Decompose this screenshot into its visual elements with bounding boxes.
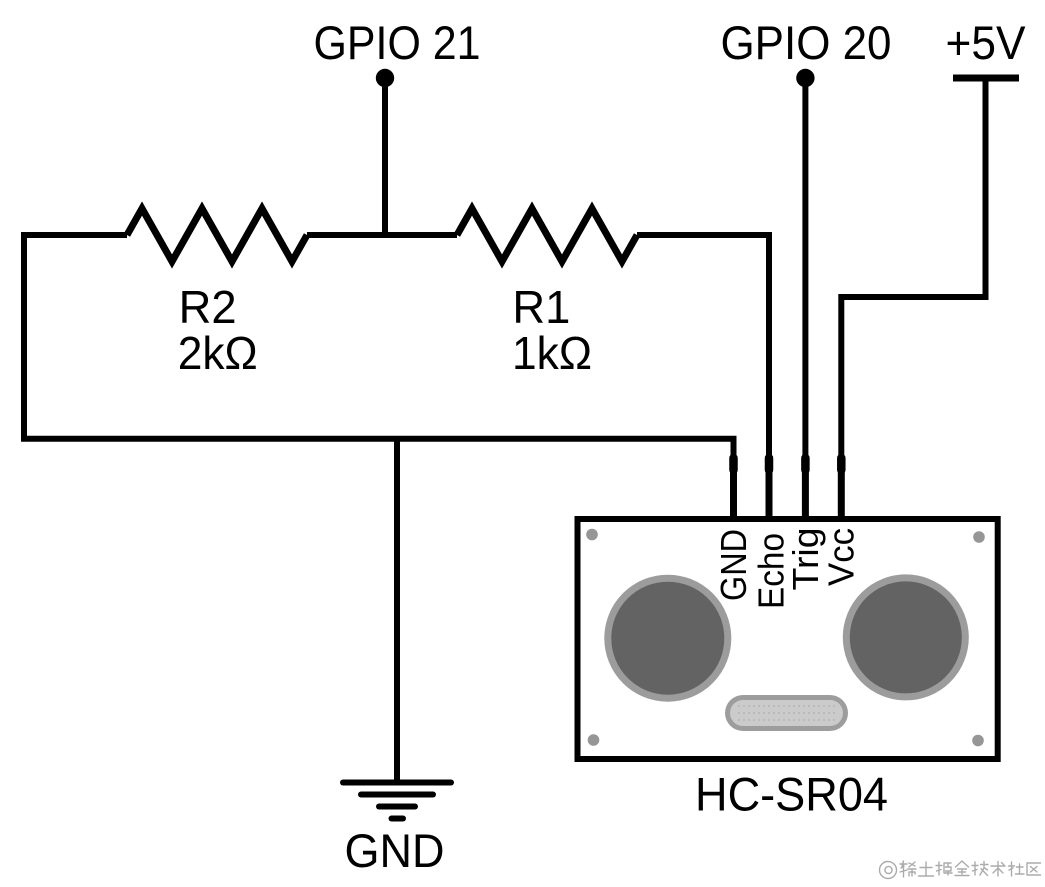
- svg-text:GPIO 20: GPIO 20: [721, 16, 892, 69]
- pin Trig lead: [801, 458, 810, 470]
- svg-text:Trig: Trig: [785, 528, 826, 591]
- svg-text:GPIO 21: GPIO 21: [314, 16, 481, 69]
- wire GPIO 20 to Trig pin: [802, 78, 808, 524]
- wire GPIO 21 to resistor junction: [382, 78, 388, 238]
- sensor right transducer: [846, 578, 965, 697]
- sensor U1 HC-SR04 body: [578, 519, 998, 759]
- sensor screw hole bottom-left: [588, 734, 600, 746]
- svg-text:2kΩ: 2kΩ: [178, 327, 258, 379]
- resistor R1: [457, 209, 637, 262]
- power +5V symbol bar: [953, 75, 1019, 82]
- sensor crystal connector: [725, 695, 848, 731]
- pin GND lead: [729, 458, 738, 470]
- pin Vcc lead: [837, 458, 846, 470]
- svg-text:+5V: +5V: [946, 16, 1027, 69]
- sensor screw hole top-right: [973, 531, 985, 543]
- svg-text:HC-SR04: HC-SR04: [695, 768, 888, 821]
- svg-text:Vcc: Vcc: [821, 528, 862, 586]
- svg-text:GND: GND: [345, 824, 445, 877]
- junction dot GPIO 21: [376, 69, 394, 87]
- wire +5V to Vcc pin: [841, 78, 985, 524]
- pin Echo lead: [765, 458, 774, 470]
- svg-text:R1: R1: [512, 281, 570, 333]
- sensor screw hole bottom-right: [972, 735, 984, 747]
- svg-text:R2: R2: [179, 281, 237, 333]
- svg-text:1kΩ: 1kΩ: [512, 327, 592, 379]
- wire middle lead junction node: [307, 232, 457, 238]
- sensor screw hole top-left: [586, 529, 598, 541]
- wire left rail to GND pin: [24, 235, 734, 524]
- sensor left transducer: [608, 578, 728, 698]
- wire GND stub: [394, 436, 400, 782]
- wire right lead of R1 to Echo pin: [637, 235, 769, 524]
- junction dot GPIO 20: [796, 69, 814, 87]
- svg-text:GND: GND: [713, 529, 754, 601]
- ground symbol: [343, 783, 451, 819]
- wire left lead of R2: [21, 232, 127, 238]
- watermark @稀土掘金技术社区: [880, 861, 1041, 879]
- resistor R2: [127, 209, 307, 262]
